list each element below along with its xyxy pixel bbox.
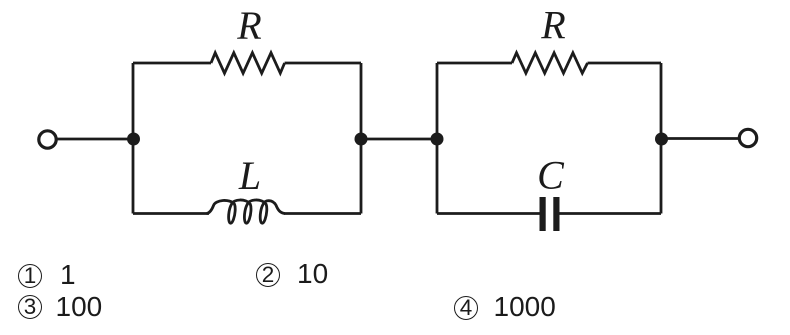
option 3 value <box>56 291 103 323</box>
node D (right junction dot) <box>655 133 668 146</box>
svg-text:C: C <box>537 153 565 198</box>
wire left block top left segment <box>133 62 211 65</box>
wire right block top left segment <box>437 62 512 65</box>
svg-text:R: R <box>236 3 261 48</box>
node B (left block output dot) <box>355 133 368 146</box>
option 1 marker <box>18 264 42 288</box>
node A (left junction dot) <box>127 133 140 146</box>
option 3 marker <box>18 295 42 319</box>
resistor R (left) <box>211 53 285 73</box>
wire left block bottom right segment <box>284 212 361 215</box>
wire right block left vertical <box>436 63 439 214</box>
wire left block bottom left segment <box>133 212 209 215</box>
node C (right block input dot) <box>431 133 444 146</box>
wire input lead <box>57 138 133 141</box>
wire right block bottom left segment <box>437 212 540 215</box>
svg-text:L: L <box>238 153 261 198</box>
resistor R (right) <box>512 53 588 73</box>
wire left block left vertical <box>132 63 135 214</box>
wire right block bottom right segment <box>560 212 662 215</box>
label R (right resistor) <box>540 3 565 48</box>
option 1 value <box>60 259 76 291</box>
option 4 value <box>494 291 556 323</box>
wire output lead <box>661 137 739 140</box>
wire middle link <box>361 138 437 141</box>
output terminal <box>739 129 756 146</box>
input terminal <box>39 131 56 148</box>
wire right block top right segment <box>588 62 662 65</box>
wire right block right vertical <box>660 63 663 214</box>
inductor L <box>207 200 286 223</box>
svg-text:R: R <box>540 3 565 48</box>
option 2 value <box>297 258 328 290</box>
wire left block right vertical <box>360 63 363 214</box>
wire left block top right segment <box>285 62 361 65</box>
option 4 marker <box>454 296 478 320</box>
label C (capacitor) <box>537 153 565 198</box>
option 2 marker <box>256 263 280 287</box>
capacitor C <box>540 197 560 231</box>
label R (left resistor) <box>236 3 261 48</box>
label L (inductor) <box>238 153 261 198</box>
